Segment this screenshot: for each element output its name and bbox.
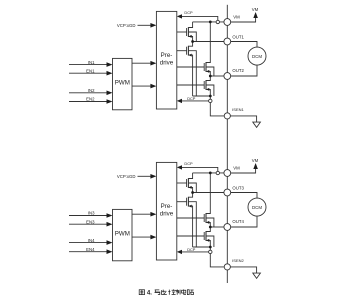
transistor M7 drain leg — [206, 173, 210, 214]
transistor M1 channel — [187, 27, 189, 37]
transistor M2 body leg — [188, 51, 196, 96]
pin DCP small circle top — [216, 20, 219, 23]
wire PWM2 output 2 — [132, 236, 151, 238]
wire VM rail stub above pin — [226, 5, 228, 22]
wire VM supply arm 2 — [231, 169, 256, 174]
arrowhead VM supply top — [253, 12, 258, 18]
caption glyph 电 — [182, 289, 186, 294]
transistor M2 gate bar — [186, 47, 188, 55]
wire motor arm OUT1 — [231, 42, 257, 48]
wire gate M6 — [177, 201, 187, 203]
wire DCP bottom — [181, 100, 210, 102]
transistor M6 source arrow — [189, 205, 192, 208]
wire VCP:xGD input — [138, 24, 152, 26]
wire ISEN2 to ground — [230, 267, 256, 273]
wire package rail VM2 to ISEN2 — [226, 119, 228, 283]
arrowhead EN3 — [107, 222, 113, 227]
pin ISEN1 — [224, 113, 230, 119]
caption glyph 马 — [155, 290, 160, 295]
transistor M7 source leg — [206, 222, 210, 227]
transistor M8 channel — [205, 231, 207, 241]
wire OUT2 net — [210, 75, 224, 77]
transistor M5 source leg — [188, 187, 192, 192]
svg-text:PWM: PWM — [115, 79, 130, 86]
svg-text:IN3: IN3 — [88, 211, 95, 216]
svg-text:DCP: DCP — [187, 96, 196, 101]
wire ISEN1 to ground — [230, 116, 256, 122]
transistor M1 body leg — [188, 32, 196, 42]
pin ISEN1 small circle — [209, 99, 212, 102]
arrowhead PWM2 out 2 — [150, 235, 156, 240]
wire gate M7 — [177, 217, 204, 219]
arrowhead VCP — [150, 23, 156, 28]
transistor M1 source leg — [188, 36, 192, 41]
junction dot ISEN1 feed — [209, 95, 212, 98]
transistor M5 channel — [187, 178, 189, 188]
svg-text:EN1: EN1 — [86, 68, 95, 73]
transistor M2 source leg — [188, 55, 192, 96]
motor DCM1 — [248, 47, 266, 65]
arrowhead IN4 — [107, 240, 113, 245]
svg-text:VCP:xGD: VCP:xGD — [117, 23, 136, 28]
transistor M6 body leg — [188, 202, 196, 247]
transistor M3 source leg — [206, 71, 210, 76]
wire DCP top — [181, 16, 218, 22]
svg-text:OUT4: OUT4 — [232, 219, 244, 224]
pin OUT2 — [224, 73, 231, 80]
transistor M1 source arrow — [189, 35, 192, 38]
transistor M6 source leg — [188, 206, 192, 247]
junction dot rail/M7 — [209, 172, 212, 175]
svg-text:EN2: EN2 — [86, 97, 95, 102]
svg-text:OUT2: OUT2 — [232, 68, 244, 73]
transistor M4 source arrow — [206, 88, 209, 91]
wire VM bottom rail — [193, 172, 224, 174]
ground GND2 — [253, 273, 261, 278]
svg-text:drive: drive — [160, 59, 174, 66]
transistor M5 source arrow — [189, 186, 192, 189]
wire motor arm OUT2 — [231, 65, 257, 76]
transistor M1 drain leg — [188, 22, 192, 28]
wire VM top rail — [193, 21, 224, 23]
motor DCM2 — [248, 198, 266, 216]
ground GND1 — [253, 122, 261, 127]
transistor M6 channel — [187, 197, 189, 207]
transistor M5 drain leg — [188, 173, 192, 179]
transistor M2 channel — [187, 46, 189, 56]
arrowhead EN4 — [107, 249, 113, 254]
junction dot ISEN2 feed — [209, 246, 212, 249]
transistor M5 gate bar — [186, 179, 188, 187]
wire OUT4 net — [210, 226, 224, 228]
svg-text:VCP:xGD: VCP:xGD — [117, 174, 136, 179]
pin DCP small circle bottom — [216, 171, 219, 174]
arrowhead EN1 — [107, 71, 113, 76]
arrowhead EN2 — [107, 99, 113, 104]
transistor M8 drain leg — [206, 227, 210, 232]
svg-text:DCP: DCP — [187, 247, 196, 252]
wire PWM2 output 1 — [132, 213, 151, 215]
transistor M7 gate bar — [203, 214, 205, 222]
transistor M3 body leg — [206, 67, 214, 76]
pin OUT1 — [224, 38, 231, 45]
transistor M7 body leg — [206, 218, 214, 227]
arrowhead PWM out 1 — [150, 61, 156, 66]
svg-text:4.: 4. — [147, 290, 152, 297]
junction dot OUT2 — [209, 75, 212, 78]
arrowhead DCP top 2 — [177, 165, 182, 169]
pin VM — [224, 19, 231, 26]
caption glyph 达 — [161, 290, 166, 295]
wire IN4 input — [69, 242, 107, 244]
transistor M4 drain leg — [206, 76, 210, 81]
wire motor arm OUT4 — [231, 216, 257, 227]
svg-text:DCP: DCP — [184, 10, 193, 15]
svg-text:Pre-: Pre- — [161, 203, 173, 210]
transistor M7 channel — [205, 213, 207, 223]
wire OUT1 net — [193, 41, 224, 43]
svg-text:OUT1: OUT1 — [232, 35, 244, 40]
svg-text:DCM: DCM — [252, 205, 262, 210]
arrowhead PWM out 2 — [150, 84, 156, 89]
caption glyph 路 — [187, 290, 193, 295]
arrowhead VM supply bottom — [253, 163, 258, 169]
transistor M6 gate bar — [186, 198, 188, 206]
transistor M5 body leg — [188, 183, 196, 193]
wire IN2 input — [69, 92, 107, 94]
pin OUT4 — [224, 224, 231, 231]
svg-text:IN4: IN4 — [88, 238, 95, 243]
Pre-drive block U2 — [156, 11, 176, 109]
arrowhead DCP top — [177, 14, 182, 18]
transistor M4 channel — [205, 80, 207, 90]
wire package rail VM to ISEN1 — [226, 22, 228, 119]
wire DCP bottom 2 — [181, 251, 210, 253]
wire gate M8 — [177, 235, 204, 237]
pin ISEN2 — [224, 264, 230, 270]
transistor M8 source arrow — [206, 239, 209, 242]
transistor M7 source arrow — [206, 221, 209, 224]
svg-text:VM: VM — [233, 166, 240, 171]
svg-text:OUT3: OUT3 — [232, 186, 244, 191]
svg-text:IN1: IN1 — [88, 60, 95, 65]
transistor M3 channel — [205, 62, 207, 72]
arrowhead DCP bottom 2 — [177, 250, 182, 254]
transistor M8 body leg — [206, 236, 214, 247]
svg-text:drive: drive — [160, 210, 174, 217]
Pre-drive block U4 — [156, 162, 176, 260]
wire PWM output 1 — [132, 62, 151, 64]
svg-text:ISEN1: ISEN1 — [232, 107, 244, 112]
wire EN3 input — [69, 223, 107, 225]
caption glyph 图 — [139, 290, 144, 295]
wire gate M1 — [177, 31, 187, 33]
wire OUT3 net — [193, 192, 224, 194]
caption glyph 制 — [175, 289, 180, 294]
junction dot OUT1 — [191, 40, 194, 43]
arrowhead IN1 — [107, 62, 113, 67]
wire gate M3 — [177, 66, 204, 68]
wire EN1 input — [69, 72, 107, 74]
wire IN1 input — [69, 64, 107, 66]
wire EN2 input — [69, 101, 107, 103]
pin OUT3 — [224, 189, 231, 196]
transistor M3 source arrow — [206, 70, 209, 73]
svg-text:VM: VM — [252, 7, 259, 12]
svg-text:VM: VM — [252, 158, 259, 163]
transistor M6 drain leg — [188, 193, 192, 198]
transistor M2 source arrow — [189, 54, 192, 57]
PWM block U1 — [113, 58, 133, 109]
wire gate M5 — [177, 182, 187, 184]
wire VM supply arm — [231, 18, 256, 23]
arrowhead PWM2 out 1 — [150, 212, 156, 217]
svg-text:DCM: DCM — [252, 54, 262, 59]
transistor M8 source leg — [206, 240, 210, 247]
arrowhead DCP bottom — [177, 99, 182, 103]
svg-text:Pre-: Pre- — [161, 52, 173, 59]
arrowhead IN2 — [107, 91, 113, 96]
svg-text:DCP: DCP — [184, 161, 193, 166]
svg-text:ISEN2: ISEN2 — [232, 258, 244, 263]
junction dot OUT4 — [209, 226, 212, 229]
transistor M4 gate bar — [203, 81, 205, 89]
wire ISEN2 feed — [193, 247, 225, 267]
svg-text:EN3: EN3 — [86, 219, 95, 224]
svg-text:PWM: PWM — [115, 230, 130, 237]
svg-text:EN4: EN4 — [86, 247, 95, 252]
wire PWM output 2 — [132, 85, 151, 87]
wire VCP:xGD input 2 — [138, 175, 152, 177]
svg-text:VM: VM — [233, 15, 240, 20]
transistor M4 source leg — [206, 89, 210, 96]
transistor M2 drain leg — [188, 42, 192, 47]
svg-text:IN2: IN2 — [88, 88, 95, 93]
arrowhead VCP 2 — [150, 174, 156, 179]
wire gate M2 — [177, 50, 187, 52]
wire ISEN1 feed — [193, 96, 225, 116]
junction dot rail/M3 — [209, 21, 212, 24]
transistor M3 gate bar — [203, 63, 205, 71]
caption: 图 4. 马达控制电路 (drawn glyphs, CJK font unavailable) — [139, 290, 144, 295]
pin VM 2 — [224, 170, 231, 177]
PWM block U3 — [113, 209, 133, 260]
caption glyph 控 — [168, 289, 175, 294]
transistor M1 gate bar — [186, 28, 188, 36]
wire DCP top 2 — [181, 167, 218, 173]
transistor M3 drain leg — [206, 22, 210, 63]
transistor M4 body leg — [206, 85, 214, 96]
wire motor arm OUT3 — [231, 193, 257, 199]
wire IN3 input — [69, 215, 107, 217]
arrowhead IN3 — [107, 213, 113, 218]
junction dot OUT3 — [191, 191, 194, 194]
pin ISEN2 small circle — [209, 250, 212, 253]
wire EN4 input — [69, 251, 107, 253]
transistor M8 gate bar — [203, 232, 205, 240]
wire gate M4 — [177, 84, 204, 86]
